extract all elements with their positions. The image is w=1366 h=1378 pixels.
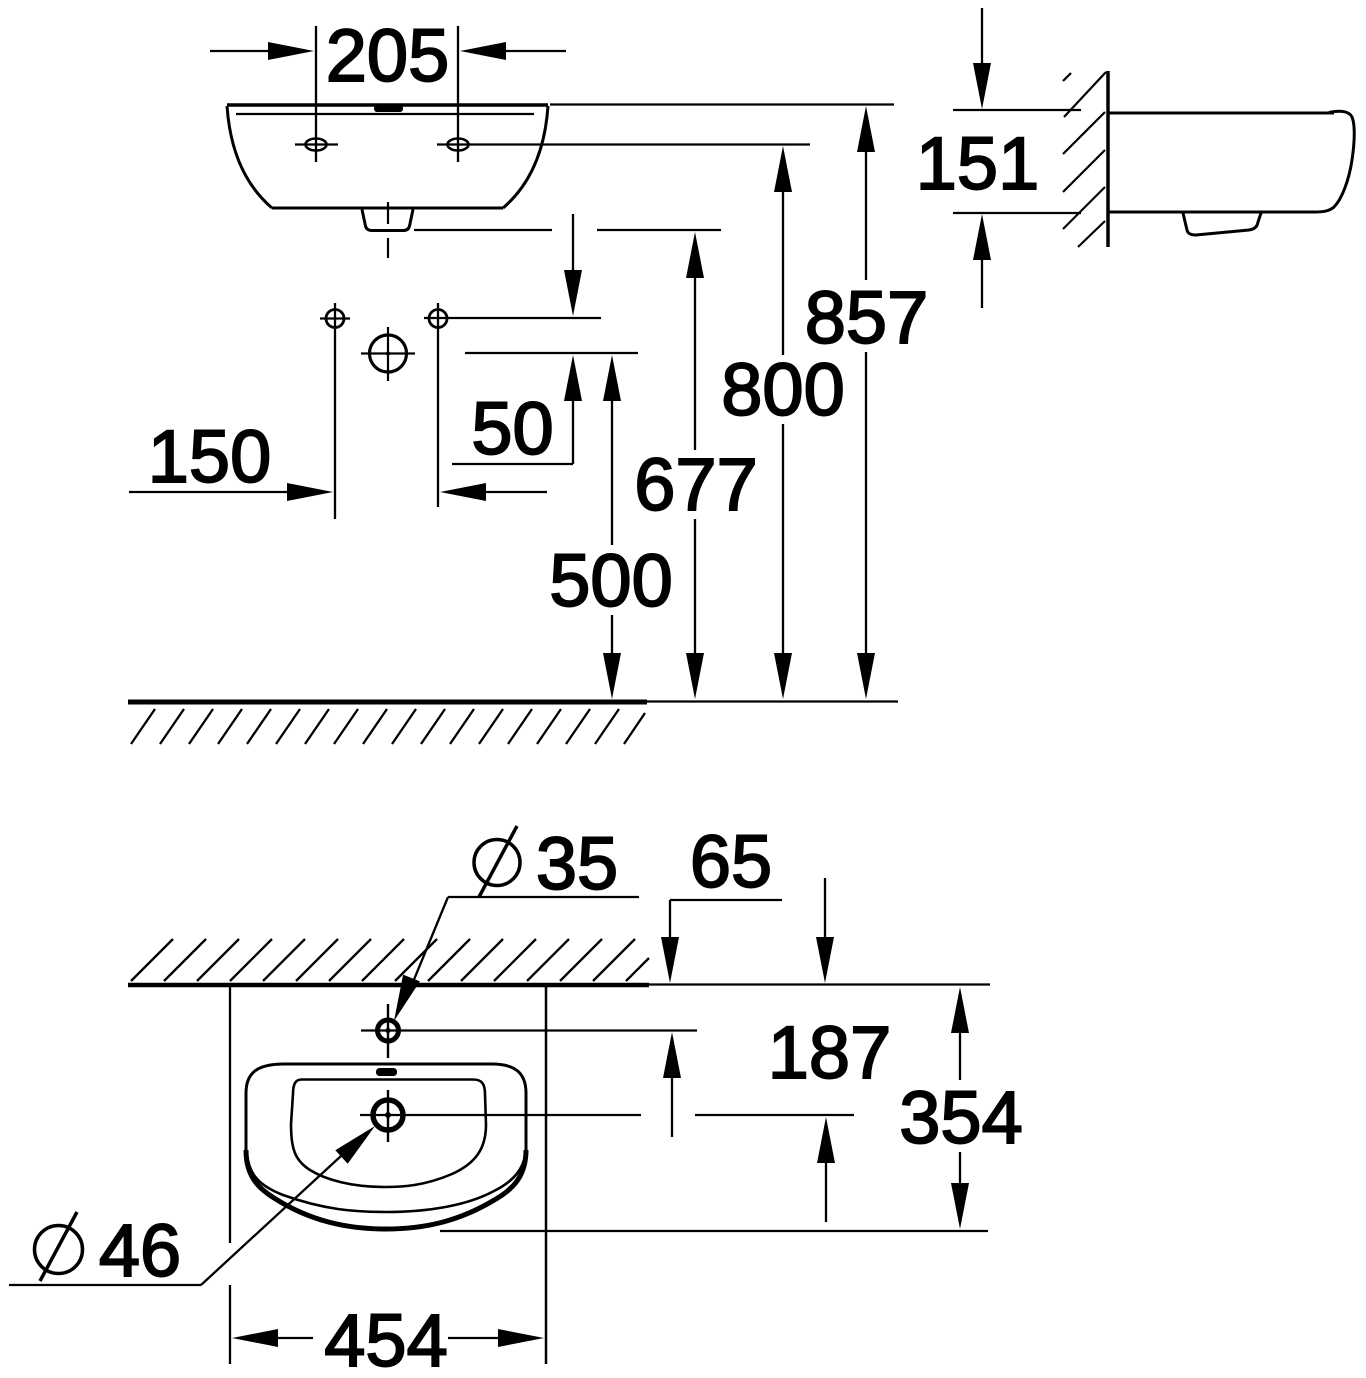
dimension 354	[899, 987, 1022, 1229]
dimension 50	[452, 214, 582, 470]
washbasin front view outline	[227, 105, 548, 208]
svg-text:500: 500	[549, 539, 672, 622]
svg-text:677: 677	[634, 443, 757, 526]
extension line from tap circle	[465, 352, 638, 354]
dimension 150	[129, 415, 333, 501]
side view wall hatching	[1063, 72, 1106, 247]
front view stub centerline	[387, 202, 389, 224]
svg-text:151: 151	[916, 122, 1039, 205]
svg-text:65: 65	[690, 820, 772, 903]
label diameter 35	[394, 822, 639, 1021]
top view thick front edge	[246, 1150, 526, 1229]
top view wall hatching	[131, 939, 649, 981]
svg-text:150: 150	[148, 415, 271, 498]
svg-text:800: 800	[721, 348, 844, 431]
top view bowl outline	[291, 1080, 486, 1188]
svg-text:354: 354	[899, 1076, 1022, 1159]
svg-text:50: 50	[471, 387, 553, 470]
svg-text:857: 857	[805, 276, 928, 359]
svg-text:187: 187	[768, 1011, 891, 1094]
svg-text:205: 205	[326, 14, 449, 97]
front view overflow slot	[374, 105, 403, 112]
floor hatching	[131, 709, 645, 744]
extension line from right cross	[424, 317, 601, 319]
dimension 150 right outside arrow	[440, 483, 547, 501]
right wall cross mark	[429, 303, 447, 507]
dimension 454	[232, 1299, 544, 1378]
extension line basin front edge to 354	[440, 1230, 988, 1232]
floor line	[128, 699, 898, 705]
front view inner rim line	[236, 113, 534, 115]
top view drain hole	[360, 1090, 854, 1142]
top view rim front inner edge	[247, 1154, 526, 1212]
dimension 151	[916, 8, 1081, 308]
top view tap hole	[361, 1004, 697, 1058]
dimension 800	[721, 146, 844, 699]
svg-text:454: 454	[324, 1299, 447, 1378]
left wall cross mark	[320, 303, 350, 519]
extension line stub bottom to 677	[414, 229, 721, 231]
top view basin outer outline	[246, 1064, 526, 1229]
svg-text:35: 35	[536, 822, 618, 905]
dimension 857	[805, 106, 928, 699]
extension line basin top to 857	[550, 103, 894, 105]
top view right extension line (454/wall)	[545, 987, 548, 1364]
side view basin profile	[1108, 111, 1354, 212]
front view drain stub	[362, 210, 413, 231]
wall tap hole circle front view	[361, 327, 415, 381]
right mounting hole with extension line for 800	[437, 139, 810, 151]
dimension 677	[634, 232, 757, 699]
top view overflow slot	[376, 1068, 397, 1076]
dimension 187	[768, 878, 891, 1222]
dimension 205	[210, 14, 566, 162]
dimension 65	[661, 820, 782, 1137]
side view wall line	[1106, 71, 1110, 247]
label diameter 46	[9, 1126, 375, 1292]
top view left extension line (454)	[229, 987, 231, 1364]
svg-text:46: 46	[99, 1209, 181, 1292]
top view wall line	[128, 982, 990, 987]
side view drain stub	[1183, 213, 1261, 235]
dimension 500	[549, 355, 672, 699]
left mounting hole	[295, 139, 338, 151]
